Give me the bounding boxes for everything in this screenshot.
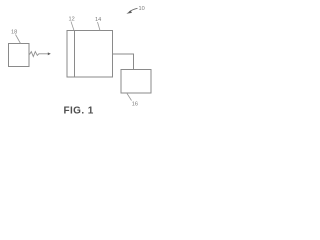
leader 12	[71, 22, 74, 31]
box 12/14 (middle block)	[67, 31, 113, 78]
box 18 (left block)	[9, 44, 30, 67]
leader 14	[98, 22, 101, 31]
svg-text:10: 10	[139, 6, 145, 12]
arrowhead	[48, 52, 51, 55]
svg-text:FIG. 1: FIG. 1	[64, 105, 94, 116]
wire squiggle (signal from box 18)	[30, 52, 49, 57]
svg-text:14: 14	[95, 17, 101, 23]
box 16 (bottom right block)	[121, 70, 151, 94]
svg-text:18: 18	[11, 30, 17, 36]
leader 16	[127, 94, 132, 101]
inner divider line (12 column)	[74, 31, 76, 78]
leader 18	[16, 35, 21, 44]
svg-text:12: 12	[69, 17, 75, 23]
wire from middle block to box 16	[113, 54, 134, 70]
svg-text:16: 16	[132, 102, 138, 108]
reference arrow 10	[129, 8, 138, 12]
